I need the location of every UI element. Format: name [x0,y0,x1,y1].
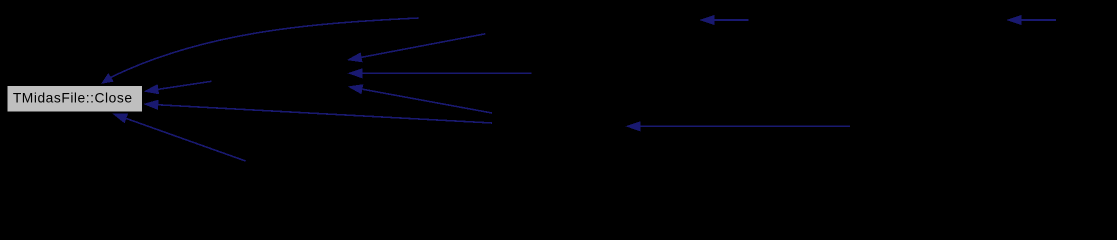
svg-text:TMidasFile::Close: TMidasFile::Close [13,90,133,105]
